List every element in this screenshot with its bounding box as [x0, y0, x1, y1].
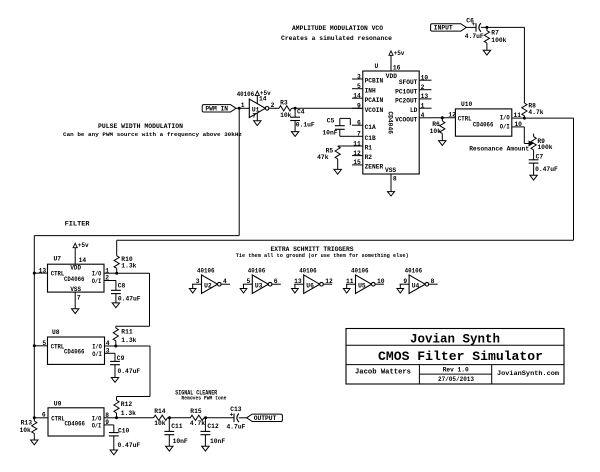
svg-text:CD4046: CD4046 [387, 111, 394, 134]
svg-text:6: 6 [357, 120, 361, 127]
svg-text:CMOS Filter Simulator: CMOS Filter Simulator [378, 350, 543, 364]
pin 14 PCAIN of U [352, 97, 363, 99]
connector INPUT [431, 24, 467, 31]
resistor R8 [522, 103, 527, 116]
wire stage1 to stage2 [117, 272, 150, 274]
capacitor C12 [204, 418, 206, 432]
ground below C10 [110, 450, 117, 455]
svg-text:C12: C12 [207, 423, 219, 430]
svg-text:4: 4 [421, 112, 425, 119]
svg-text:100k: 100k [491, 37, 506, 44]
svg-text:U4: U4 [412, 283, 420, 290]
svg-text:6: 6 [274, 278, 278, 285]
resistor R13 [33, 418, 35, 421]
svg-text:U5: U5 [358, 283, 366, 290]
pin 16 VDD of U [390, 55, 392, 71]
svg-text:PCAIN: PCAIN [365, 97, 384, 104]
node R3-C4 junction [294, 107, 297, 110]
svg-text:16: 16 [393, 65, 401, 72]
svg-text:9: 9 [403, 278, 407, 285]
node stage3 junction [115, 416, 118, 419]
pin 5 INH of U [352, 88, 363, 90]
wire output U3 [272, 283, 281, 285]
node R14-C11 junction [168, 416, 171, 419]
svg-text:AMPLITUDE MODULATION VCO: AMPLITUDE MODULATION VCO [292, 25, 383, 32]
svg-text:9: 9 [357, 103, 361, 110]
wire C5 bracket top [349, 118, 351, 125]
resistor R7 [486, 27, 488, 30]
pin 12 R2 of U [352, 155, 363, 157]
svg-text:Creates a simulated resonance: Creates a simulated resonance [281, 35, 392, 42]
svg-text:13: 13 [421, 93, 429, 100]
svg-text:15: 15 [353, 159, 361, 166]
wire feedback across [117, 239, 574, 241]
pin 2 PC1OUT of U [419, 89, 431, 91]
ground below C4 [291, 132, 298, 137]
ground below U [388, 192, 395, 196]
capacitor C4 [294, 108, 296, 117]
svg-text:Tie them all to ground (or use: Tie them all to ground (or use them for … [236, 253, 409, 259]
pot R9 wiper arrow [529, 141, 533, 146]
ground below R6 [439, 141, 446, 146]
svg-text:CTRL: CTRL [51, 344, 65, 351]
pin 1 LD of U [419, 107, 431, 109]
svg-text:CD4066: CD4066 [65, 421, 86, 428]
svg-text:10nF: 10nF [322, 130, 337, 137]
wire input U3 [243, 283, 253, 285]
pin 13 stub U7 [34, 272, 47, 274]
resistor R15 [190, 415, 204, 420]
svg-text:27/05/2013: 27/05/2013 [438, 376, 474, 383]
svg-text:U7: U7 [54, 255, 62, 262]
svg-text:40106: 40106 [197, 268, 215, 275]
svg-text:40106: 40106 [405, 268, 423, 275]
pin 7 C1B of U [352, 135, 363, 137]
title block outer frame [346, 329, 564, 385]
svg-text:1: 1 [241, 102, 245, 109]
svg-text:8: 8 [393, 176, 397, 183]
op-amp U1 -- actually IC U CD4046 body [363, 71, 419, 174]
svg-text:7: 7 [252, 113, 256, 120]
svg-text:C9: C9 [117, 355, 125, 362]
svg-text:10: 10 [514, 121, 522, 128]
svg-text:R6: R6 [432, 121, 440, 128]
pin 1 stub U7 [104, 272, 117, 274]
svg-text:5: 5 [42, 340, 46, 347]
svg-text:2: 2 [105, 275, 109, 282]
svg-text:C10: C10 [118, 427, 130, 434]
svg-text:6: 6 [42, 412, 46, 419]
svg-text:2: 2 [421, 84, 425, 91]
svg-text:VSS: VSS [385, 167, 396, 174]
svg-text:CD4066: CD4066 [64, 349, 85, 356]
pin 4 stub U8 [105, 345, 116, 347]
svg-text:1: 1 [105, 267, 109, 274]
IC U8 CD4066 body [48, 337, 105, 364]
ground below U7 [72, 309, 79, 314]
svg-text:C5: C5 [327, 117, 335, 124]
wire C7 to ground [533, 163, 535, 175]
svg-text:40106: 40106 [299, 268, 317, 275]
svg-text:U: U [375, 63, 379, 70]
svg-text:C7: C7 [536, 154, 544, 161]
svg-text:1.3k: 1.3k [121, 263, 136, 270]
svg-text:0.47uF: 0.47uF [118, 295, 141, 302]
svg-text:I/O: I/O [92, 344, 102, 351]
svg-text:10k: 10k [280, 112, 292, 119]
svg-text:10: 10 [421, 75, 429, 82]
title block mid divider [419, 373, 491, 375]
op-amp U1 schmitt inverter 40106 [249, 99, 265, 118]
resistor R11 [115, 326, 117, 328]
svg-text:11: 11 [514, 112, 522, 119]
svg-text:R13: R13 [21, 419, 33, 426]
svg-text:R1: R1 [365, 145, 373, 152]
node stage1 out junction [115, 272, 118, 275]
svg-text:+5v: +5v [260, 90, 271, 97]
ground at input U3 [243, 284, 245, 288]
ground below C8 [112, 303, 119, 308]
title block divider 2 [346, 364, 564, 366]
svg-text:4.7uF: 4.7uF [465, 33, 484, 40]
IC U10 CD4066 body [455, 109, 511, 136]
connector PWM IN [202, 105, 236, 112]
ground below R13 [31, 440, 38, 445]
svg-text:R12: R12 [121, 401, 133, 408]
ground below R5 [334, 169, 341, 174]
wire [236, 107, 249, 109]
wire input U4 [400, 283, 410, 285]
capacitor C8 [115, 281, 117, 291]
svg-text:R11: R11 [121, 329, 133, 336]
wire pin10 to R9 wiper [523, 127, 525, 144]
wire pin11 to R5 [338, 145, 352, 147]
svg-text:47k: 47k [317, 154, 329, 161]
svg-text:5: 5 [247, 278, 251, 285]
op-amp U2 schmitt inverter [202, 275, 218, 294]
op-amp U3 schmitt inverter [252, 275, 268, 294]
svg-text:3: 3 [196, 278, 200, 285]
svg-text:PCBIN: PCBIN [365, 78, 384, 85]
resistor R14 [154, 415, 168, 420]
svg-text:0.47uF: 0.47uF [535, 166, 558, 173]
svg-text:VCOIN: VCOIN [365, 107, 384, 114]
svg-text:R7: R7 [491, 30, 499, 37]
node ctrl-U9-R13 junction [33, 416, 36, 419]
svg-text:4.7k: 4.7k [528, 109, 543, 116]
title block vertical 1 [418, 365, 420, 384]
title block vertical 2 [491, 365, 493, 384]
svg-text:C4: C4 [297, 108, 305, 115]
svg-text:4.7uF: 4.7uF [227, 424, 246, 431]
svg-text:0.47uF: 0.47uF [118, 442, 141, 449]
pin 6 stub U9 [34, 417, 48, 419]
svg-text:U10: U10 [461, 101, 473, 108]
svg-text:Jovian Synth: Jovian Synth [410, 333, 500, 347]
svg-text:U6: U6 [306, 283, 314, 290]
svg-text:U2: U2 [204, 283, 212, 290]
resistor R6 [441, 118, 443, 121]
svg-text:12: 12 [325, 278, 333, 285]
svg-text:LD: LD [410, 107, 418, 114]
ground at input U4 [399, 284, 401, 288]
svg-text:O/I: O/I [92, 278, 102, 285]
svg-text:+5v: +5v [394, 50, 405, 57]
svg-text:O/I: O/I [92, 423, 102, 430]
svg-text:R3: R3 [280, 100, 288, 107]
node C6-R7 junction [485, 26, 488, 29]
svg-text:FILTER: FILTER [65, 221, 90, 228]
resistor R5 [335, 146, 340, 159]
svg-text:3: 3 [106, 348, 110, 355]
svg-text:PC2OUT: PC2OUT [395, 98, 418, 105]
connector OUTPUT [247, 414, 283, 421]
svg-text:VSS: VSS [70, 286, 81, 293]
pin 3 PCBIN of U [352, 78, 363, 80]
svg-text:I/O: I/O [500, 115, 510, 122]
svg-text:CTRL: CTRL [458, 116, 472, 123]
resistor R3 [279, 106, 292, 111]
svg-text:7: 7 [77, 295, 81, 302]
svg-text:4.7k: 4.7k [190, 420, 205, 427]
svg-text:C11: C11 [171, 423, 183, 430]
wire R14 to R15 [168, 417, 191, 419]
op-amp U4 schmitt inverter [409, 275, 425, 294]
wire output U2 [221, 283, 230, 285]
wire R3 to VCOIN [292, 107, 363, 109]
wire INPUT to C6 [466, 26, 476, 28]
wire pwm down [238, 108, 240, 235]
svg-text:0.47uF: 0.47uF [118, 368, 141, 375]
power +5v above U [389, 51, 393, 55]
svg-text:40106: 40106 [248, 268, 266, 275]
title block divider 1 [346, 344, 564, 346]
svg-text:VDD: VDD [70, 265, 81, 272]
svg-text:VDD: VDD [386, 73, 397, 80]
wire to R14 [117, 417, 154, 419]
pin 13 PC2OUT of U [419, 98, 431, 100]
svg-text:9: 9 [105, 419, 109, 426]
svg-text:10k: 10k [430, 128, 442, 135]
power +5v at U1 [255, 91, 259, 95]
pin 8 stub U9 [104, 417, 117, 419]
svg-text:1.3k: 1.3k [121, 337, 136, 344]
svg-text:10nF: 10nF [173, 438, 188, 445]
resistor R12 [116, 397, 118, 401]
pin 3 stub U8 [105, 352, 116, 354]
svg-text:11: 11 [353, 140, 361, 147]
IC U7 CD4066 body [48, 264, 105, 292]
svg-text:ZENER: ZENER [365, 164, 384, 171]
ground at input U2 [192, 284, 194, 288]
wire input U5 [346, 283, 356, 285]
node ctrl-U8 junction [33, 344, 36, 347]
wire feedback down to R10 [116, 240, 118, 256]
wire output U4 [429, 283, 438, 285]
svg-text:C13: C13 [230, 406, 242, 413]
wire R5 to ground [337, 159, 339, 169]
capacitor C10 [113, 425, 115, 433]
svg-text:I/O: I/O [92, 415, 102, 422]
wire U1 out to R3 [269, 107, 279, 109]
pin 7 VSS stub U7 [74, 292, 76, 309]
ground at input U6 [294, 284, 296, 288]
svg-text:C8: C8 [118, 283, 126, 290]
svg-text:7: 7 [357, 131, 361, 138]
ground below C12 [202, 446, 209, 451]
svg-text:JovianSynth.com: JovianSynth.com [497, 370, 559, 378]
pin 5 stub U8 [34, 345, 47, 347]
svg-text:CTRL: CTRL [51, 271, 65, 278]
node R6 junction [441, 116, 444, 119]
node R15-C12 junction [204, 416, 207, 419]
wire input U2 [192, 283, 202, 285]
svg-text:OUTPUT: OUTPUT [254, 415, 277, 422]
svg-text:10nF: 10nF [210, 438, 225, 445]
wire feedback down right side [573, 118, 575, 240]
svg-text:14: 14 [353, 93, 361, 100]
op-amp U6 schmitt inverter [304, 275, 320, 294]
wire input node down to R8 [523, 27, 525, 103]
wire C6 to junction [481, 26, 525, 28]
svg-text:14: 14 [79, 257, 87, 264]
svg-text:Rev 1.0: Rev 1.0 [443, 366, 469, 373]
capacitor C9 [114, 353, 116, 361]
svg-text:C6: C6 [466, 17, 474, 24]
svg-text:Resonance Amount: Resonance Amount [469, 145, 529, 152]
pot R9 [533, 134, 535, 137]
ground at input U5 [346, 284, 348, 288]
svg-text:Removes PWM tone: Removes PWM tone [181, 395, 226, 401]
pin 11 R1 of U [352, 145, 363, 147]
node stage2 out junction [114, 345, 117, 348]
svg-text:11: 11 [346, 278, 354, 285]
node ctrl-U7 junction [33, 272, 36, 275]
capacitor C7 [529, 159, 539, 161]
svg-text:CTRL: CTRL [51, 415, 65, 422]
wire pwm across [34, 235, 239, 237]
wire stage2 to stage3 [116, 345, 150, 347]
ground below C9 [111, 378, 118, 383]
pin 9 stub U9 [104, 424, 114, 426]
svg-text:VCOOUT: VCOOUT [395, 116, 418, 123]
wire output U6 [323, 283, 332, 285]
svg-text:100k: 100k [537, 144, 552, 151]
svg-text:1: 1 [421, 103, 425, 110]
power +5v above U7 [73, 243, 77, 247]
pin 14 VDD stub U7 [74, 248, 76, 265]
svg-text:10: 10 [377, 278, 385, 285]
wire VCOOUT to U10 CTRL [432, 117, 456, 119]
svg-text:40106: 40106 [351, 268, 369, 275]
op-amp U5 schmitt inverter [356, 275, 372, 294]
svg-text:Jacob Watters: Jacob Watters [355, 369, 411, 377]
svg-text:SFOUT: SFOUT [399, 79, 418, 86]
svg-text:4: 4 [106, 340, 110, 347]
svg-text:C1A: C1A [365, 124, 376, 131]
svg-text:+5v: +5v [78, 242, 89, 249]
ground below R7 [483, 50, 490, 55]
ground below C7 [530, 175, 537, 180]
capacitor C6 polarized [475, 23, 477, 32]
svg-text:PWM IN: PWM IN [205, 106, 228, 113]
svg-text:CD4066: CD4066 [473, 121, 494, 128]
capacitor C5 [335, 125, 345, 127]
svg-text:C1B: C1B [365, 135, 376, 142]
svg-text:INH: INH [365, 87, 376, 94]
ground below U1 [254, 121, 261, 126]
node R8-pin11 junction [523, 117, 526, 120]
wire feedback right [524, 117, 573, 119]
wire U1 vdd stub [256, 96, 258, 104]
svg-text:0.1uF: 0.1uF [296, 121, 315, 128]
svg-text:R14: R14 [154, 408, 166, 415]
pin 10 SFOUT of U [419, 79, 431, 81]
node PWM junction [238, 107, 241, 110]
svg-text:13: 13 [294, 278, 302, 285]
svg-text:4: 4 [223, 278, 227, 285]
pin 6 C1A of U [352, 124, 363, 126]
svg-text:U9: U9 [54, 400, 62, 407]
svg-text:5: 5 [357, 83, 361, 90]
svg-text:CD4066: CD4066 [64, 276, 85, 283]
svg-text:Can be any PWM source with a f: Can be any PWM source with a frequency a… [63, 131, 242, 138]
pin 8 VSS of U [390, 174, 392, 192]
IC U9 CD4066 body [48, 408, 104, 436]
svg-text:1.3k: 1.3k [121, 410, 136, 417]
svg-text:I/O: I/O [92, 271, 102, 278]
svg-text:40106: 40106 [237, 91, 255, 98]
svg-text:3: 3 [357, 73, 361, 80]
svg-text:R15: R15 [190, 408, 202, 415]
svg-text:8: 8 [105, 412, 109, 419]
pin 4 VCOOUT of U [419, 117, 431, 119]
wire C13 to OUTPUT [239, 417, 247, 419]
svg-text:O/I: O/I [500, 123, 510, 130]
svg-text:13: 13 [39, 267, 47, 274]
svg-text:U8: U8 [52, 329, 60, 336]
wire output U5 [375, 283, 384, 285]
svg-text:INPUT: INPUT [434, 25, 453, 32]
svg-text:PC1OUT: PC1OUT [395, 88, 418, 95]
svg-text:R2: R2 [365, 154, 373, 161]
pin 9 VCOIN of U [352, 107, 363, 109]
svg-text:U3: U3 [255, 283, 263, 290]
svg-text:12: 12 [353, 150, 361, 157]
svg-text:10k: 10k [19, 427, 31, 434]
capacitor C11 [168, 418, 170, 432]
wire input U6 [294, 283, 304, 285]
pin 10 stub U10 [512, 126, 525, 128]
svg-text:PULSE WIDTH MODULATION: PULSE WIDTH MODULATION [98, 123, 183, 130]
pin 2 stub U7 [104, 280, 116, 282]
pin 15 ZENER of U [352, 164, 363, 166]
svg-text:8: 8 [431, 278, 435, 285]
ground below C11 [166, 446, 173, 451]
wire C5 bracket bottom [339, 129, 341, 136]
svg-text:O/I: O/I [92, 351, 102, 358]
svg-text:10k: 10k [154, 420, 166, 427]
wire ctrl bus down [33, 236, 35, 418]
capacitor C13 polarized [233, 414, 235, 423]
wire U1 vss stub [256, 113, 258, 121]
pin 11 stub U10 [512, 117, 525, 119]
wire R15 to C13 [204, 417, 234, 419]
resistor R10 [114, 256, 119, 268]
